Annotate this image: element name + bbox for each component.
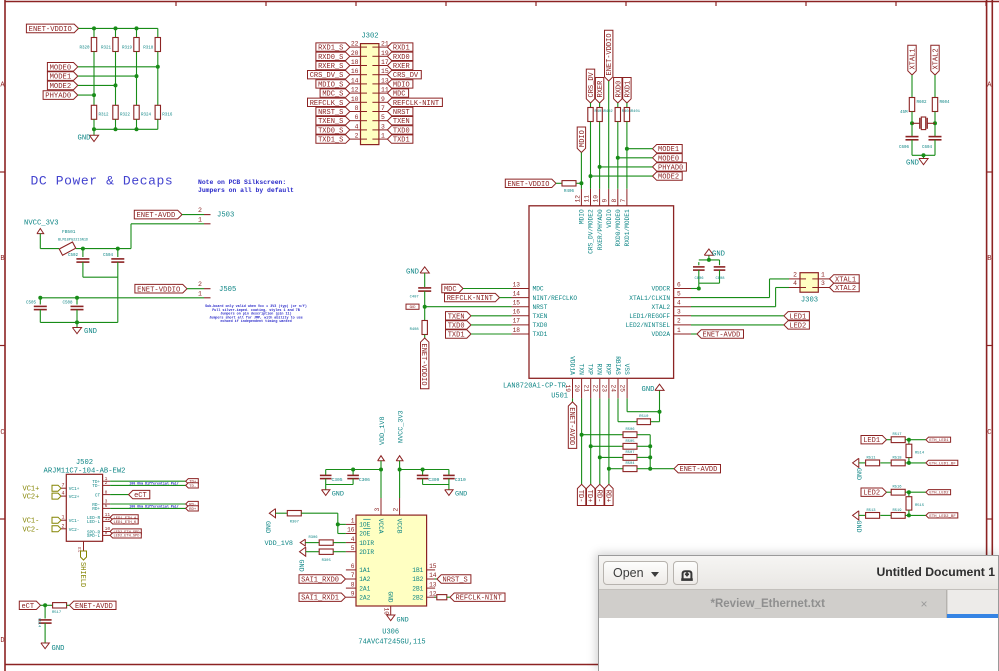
svg-text:DC Power & Decaps: DC Power & Decaps <box>31 174 174 189</box>
svg-text:1OE: 1OE <box>359 522 370 529</box>
svg-text:BLM18PG221SN1D: BLM18PG221SN1D <box>58 239 88 243</box>
svg-text:TD-: TD- <box>576 490 584 503</box>
svg-text:C606: C606 <box>899 146 910 150</box>
svg-text:REFCLK-NINT: REFCLK-NINT <box>456 595 502 603</box>
svg-text:R518: R518 <box>892 456 902 460</box>
svg-text:GND: GND <box>263 521 271 533</box>
svg-text:RXN: RXN <box>596 364 603 375</box>
svg-text:R513: R513 <box>866 509 876 513</box>
svg-text:1A2: 1A2 <box>359 576 370 583</box>
svg-text:U501: U501 <box>551 393 568 401</box>
svg-text:20: 20 <box>351 50 359 57</box>
svg-text:17: 17 <box>513 318 521 325</box>
svg-text:PHYAD0: PHYAD0 <box>45 93 71 101</box>
svg-text:3: 3 <box>374 508 381 512</box>
svg-text:C514: C514 <box>37 618 41 628</box>
svg-text:R604: R604 <box>940 101 951 105</box>
svg-text:TXD1_S: TXD1_S <box>318 137 343 145</box>
svg-text:B: B <box>0 255 4 263</box>
svg-text:XTAL1/CLKIN: XTAL1/CLKIN <box>629 295 670 302</box>
svg-text:GND: GND <box>52 645 65 653</box>
svg-text:VC2-: VC2- <box>23 526 40 534</box>
svg-text:CRS_DV: CRS_DV <box>393 72 419 80</box>
svg-text:2: 2 <box>355 133 359 140</box>
svg-text:RXD0: RXD0 <box>615 81 623 98</box>
svg-text:2: 2 <box>105 480 108 486</box>
svg-text:15: 15 <box>429 563 437 570</box>
svg-text:VDD2A: VDD2A <box>652 331 671 338</box>
svg-text:74AVC4T245GU,115: 74AVC4T245GU,115 <box>358 639 425 647</box>
svg-text:R505: R505 <box>625 440 635 444</box>
svg-text:13: 13 <box>429 581 437 588</box>
svg-text:CRS_DV: CRS_DV <box>588 71 596 97</box>
svg-text:MDC_S: MDC_S <box>322 91 343 99</box>
svg-text:VC2-: VC2- <box>69 528 80 533</box>
svg-text:LED2: LED2 <box>789 322 806 330</box>
svg-text:C407: C407 <box>410 296 419 300</box>
svg-text:R516: R516 <box>892 486 902 490</box>
svg-text:VCCA: VCCA <box>377 519 384 534</box>
svg-text:TXD0: TXD0 <box>393 127 410 135</box>
svg-text:8: 8 <box>351 581 355 588</box>
svg-text:R504: R504 <box>625 462 635 466</box>
svg-text:NRST: NRST <box>393 109 410 117</box>
svg-text:RBIAS: RBIAS <box>614 356 621 375</box>
svg-text:12: 12 <box>574 195 581 203</box>
svg-text:J503: J503 <box>217 212 234 220</box>
svg-text:MDC: MDC <box>533 286 544 293</box>
svg-text:R507: R507 <box>625 451 634 455</box>
svg-text:TXN: TXN <box>577 364 584 375</box>
svg-text:ETH_LED2: ETH_LED2 <box>929 492 949 496</box>
svg-text:Note on PCB Silkscreen:: Note on PCB Silkscreen: <box>198 179 286 186</box>
svg-text:ENET-AVDD: ENET-AVDD <box>136 212 175 220</box>
svg-text:VC2+: VC2+ <box>23 494 40 502</box>
svg-text:24: 24 <box>610 385 617 393</box>
svg-text:GND: GND <box>642 386 655 394</box>
svg-text:C: C <box>987 429 991 437</box>
svg-text:10: 10 <box>593 195 600 203</box>
svg-text:22: 22 <box>591 385 598 393</box>
svg-text:U306: U306 <box>382 629 399 637</box>
svg-text:R517: R517 <box>892 433 901 437</box>
svg-text:LED2/NINTSEL: LED2/NINTSEL <box>626 322 671 329</box>
svg-text:VCCB: VCCB <box>395 519 402 534</box>
svg-text:RXP: RXP <box>605 364 612 375</box>
svg-text:MODE2: MODE2 <box>658 174 679 182</box>
svg-text:CRS_DV_S: CRS_DV_S <box>310 72 344 80</box>
svg-text:MODE0: MODE0 <box>50 64 72 72</box>
svg-text:C808: C808 <box>715 277 725 281</box>
svg-text:10: 10 <box>351 96 359 103</box>
svg-text:ETH_LED2_BF: ETH_LED2_BF <box>929 515 956 519</box>
svg-text:14: 14 <box>429 572 437 579</box>
svg-text:18: 18 <box>513 327 521 334</box>
svg-text:2A2: 2A2 <box>359 594 370 601</box>
svg-text:C505: C505 <box>26 302 37 306</box>
svg-text:TD-: TD- <box>189 485 196 489</box>
svg-text:22: 22 <box>351 41 359 48</box>
svg-text:2DIR: 2DIR <box>359 549 374 556</box>
svg-text:LED-L: LED-L <box>87 520 101 525</box>
svg-text:R510: R510 <box>639 415 649 419</box>
svg-text:5: 5 <box>677 290 681 297</box>
svg-text:ENET-VDDIO: ENET-VDDIO <box>507 181 549 189</box>
svg-text:16: 16 <box>513 309 521 316</box>
svg-text:25: 25 <box>619 385 626 393</box>
svg-text:9: 9 <box>351 590 355 597</box>
svg-text:SAI1_RXD1: SAI1_RXD1 <box>301 595 339 603</box>
svg-text:RXD0: RXD0 <box>393 54 410 62</box>
svg-text:SHIELD: SHIELD <box>78 562 86 587</box>
svg-text:8: 8 <box>611 199 618 203</box>
svg-text:ETH_LED1: ETH_LED1 <box>929 439 949 443</box>
svg-text:6: 6 <box>677 281 681 288</box>
svg-text:R306: R306 <box>308 536 318 540</box>
svg-text:ENET-AVDD: ENET-AVDD <box>567 407 575 445</box>
svg-text:D: D <box>0 637 4 645</box>
svg-text:18: 18 <box>351 59 359 66</box>
svg-text:VDD_1V8: VDD_1V8 <box>264 540 293 548</box>
svg-text:VC2+: VC2+ <box>69 495 80 500</box>
svg-text:TD-: TD- <box>92 484 100 489</box>
svg-text:GND: GND <box>854 520 862 532</box>
svg-text:12: 12 <box>105 516 111 522</box>
svg-text:TXEN_S: TXEN_S <box>318 118 343 126</box>
svg-text:TXD0_S: TXD0_S <box>318 127 343 135</box>
svg-text:eCT: eCT <box>21 603 34 611</box>
svg-text:3: 3 <box>677 309 681 316</box>
svg-text:NVCC_3V3: NVCC_3V3 <box>24 220 59 228</box>
svg-text:J502: J502 <box>76 459 93 467</box>
svg-text:REFCLK-NINT: REFCLK-NINT <box>393 100 439 108</box>
svg-text:TXEN: TXEN <box>533 313 548 320</box>
svg-text:21: 21 <box>582 385 589 393</box>
svg-text:1: 1 <box>198 217 202 224</box>
svg-text:2: 2 <box>793 272 797 279</box>
svg-text:5: 5 <box>351 545 355 552</box>
svg-text:R506: R506 <box>625 428 635 432</box>
svg-text:6: 6 <box>351 563 355 570</box>
svg-text:RXER/PHYAD0: RXER/PHYAD0 <box>597 209 604 250</box>
svg-text:R305: R305 <box>322 559 332 563</box>
svg-text:Jumpers on all by default: Jumpers on all by default <box>198 187 294 194</box>
svg-text:TXEN: TXEN <box>448 313 465 321</box>
svg-text:10: 10 <box>382 608 389 616</box>
svg-text:LED2: LED2 <box>863 490 880 498</box>
svg-text:RD+: RD+ <box>189 508 197 512</box>
svg-text:XTAL1: XTAL1 <box>910 48 918 69</box>
svg-text:6: 6 <box>355 114 359 121</box>
svg-text:11: 11 <box>584 195 591 203</box>
svg-text:RXD0_S: RXD0_S <box>318 54 343 62</box>
svg-text:3: 3 <box>821 280 825 287</box>
svg-text:R517: R517 <box>52 611 61 615</box>
svg-text:RXER_S: RXER_S <box>318 63 343 71</box>
svg-text:14: 14 <box>513 290 521 297</box>
svg-text:VSS: VSS <box>623 364 630 375</box>
svg-text:9: 9 <box>602 199 609 203</box>
svg-text:4: 4 <box>351 536 355 543</box>
svg-text:TXD1: TXD1 <box>533 331 548 338</box>
svg-text:R519: R519 <box>892 509 902 513</box>
svg-text:REFCLK_S: REFCLK_S <box>310 100 344 108</box>
svg-text:C310: C310 <box>455 477 466 483</box>
svg-text:VC1-: VC1- <box>69 519 80 524</box>
svg-text:1: 1 <box>198 291 202 298</box>
svg-text:4: 4 <box>793 280 797 287</box>
svg-text:C305: C305 <box>332 477 343 483</box>
svg-text:2: 2 <box>61 523 64 529</box>
svg-text:MDC: MDC <box>444 286 457 294</box>
svg-text:FB501: FB501 <box>62 229 76 235</box>
svg-text:R319: R319 <box>122 47 133 51</box>
svg-text:eCT: eCT <box>134 492 147 500</box>
svg-text:SPD-L: SPD-L <box>87 534 101 539</box>
svg-text:MDC: MDC <box>393 91 406 99</box>
svg-text:NINT/REFCLKO: NINT/REFCLKO <box>533 295 578 302</box>
svg-text:ENET-VDDIO: ENET-VDDIO <box>419 344 427 386</box>
svg-text:XTAL2: XTAL2 <box>652 304 671 311</box>
svg-text:12: 12 <box>351 87 359 94</box>
svg-text:R324: R324 <box>141 114 152 118</box>
svg-text:12: 12 <box>429 590 437 597</box>
svg-text:R312: R312 <box>99 114 110 118</box>
svg-text:4: 4 <box>677 300 681 307</box>
svg-text:14: 14 <box>351 77 359 84</box>
svg-text:GND: GND <box>332 491 344 499</box>
svg-text:2: 2 <box>677 318 681 325</box>
svg-text:2: 2 <box>198 281 202 288</box>
svg-text:GND: GND <box>387 591 394 602</box>
svg-text:ENET-VDDIO: ENET-VDDIO <box>29 26 72 34</box>
svg-text:6: 6 <box>105 503 108 509</box>
svg-text:GND: GND <box>854 468 862 480</box>
svg-text:C502: C502 <box>68 254 79 258</box>
svg-text:J302: J302 <box>361 33 378 41</box>
svg-text:1B2: 1B2 <box>412 576 423 583</box>
svg-text:C504: C504 <box>103 254 114 258</box>
svg-text:MODE2: MODE2 <box>50 83 72 91</box>
svg-text:LED1: LED1 <box>863 437 880 445</box>
svg-text:2B1: 2B1 <box>412 585 423 592</box>
svg-text:echoed if independent timing w: echoed if independent timing wanted <box>220 319 291 324</box>
svg-text:13: 13 <box>513 281 521 288</box>
svg-text:SAI1_RXD0: SAI1_RXD0 <box>301 577 339 585</box>
svg-text:R322: R322 <box>120 114 131 118</box>
svg-text:VDDCR: VDDCR <box>652 286 671 293</box>
svg-text:20: 20 <box>573 385 580 393</box>
svg-text:GND: GND <box>410 305 416 309</box>
svg-text:TXD0: TXD0 <box>448 322 465 330</box>
svg-text:LED2_ETH_SPD: LED2_ETH_SPD <box>113 535 139 539</box>
svg-text:3: 3 <box>381 123 385 130</box>
svg-text:R511: R511 <box>866 456 876 460</box>
svg-text:GND: GND <box>84 328 97 336</box>
svg-text:GND: GND <box>78 135 91 143</box>
svg-text:RXD1: RXD1 <box>624 81 632 98</box>
svg-text:TXD1: TXD1 <box>393 137 410 145</box>
svg-text:B: B <box>987 255 991 263</box>
svg-text:RD+: RD+ <box>92 507 100 512</box>
svg-text:RXER: RXER <box>597 80 605 98</box>
svg-text:19: 19 <box>564 385 571 393</box>
svg-text:15: 15 <box>513 300 521 307</box>
svg-text:VC1+: VC1+ <box>69 487 80 492</box>
svg-text:4: 4 <box>61 491 64 497</box>
svg-text:100 Ohm Differential Pair: 100 Ohm Differential Pair <box>129 482 178 486</box>
svg-text:TXEN: TXEN <box>393 118 410 126</box>
svg-text:XTAL2: XTAL2 <box>835 285 856 293</box>
svg-text:2: 2 <box>198 207 202 214</box>
svg-text:1: 1 <box>381 133 385 140</box>
svg-text:GND: GND <box>397 617 409 625</box>
svg-text:VDDIO: VDDIO <box>606 209 613 228</box>
svg-text:RXD1_S: RXD1_S <box>318 45 343 53</box>
svg-text:1: 1 <box>61 515 64 521</box>
svg-text:TXD0: TXD0 <box>533 322 548 329</box>
svg-text:CT: CT <box>95 493 101 498</box>
svg-text:2: 2 <box>393 508 400 512</box>
svg-text:MODE0: MODE0 <box>658 155 679 163</box>
svg-text:TXD1: TXD1 <box>448 332 465 340</box>
svg-text:VDD1A: VDD1A <box>568 356 575 375</box>
svg-text:LED1/REGOFF: LED1/REGOFF <box>629 313 670 320</box>
svg-text:100 Ohm Differential Pair: 100 Ohm Differential Pair <box>129 505 178 509</box>
svg-text:R320: R320 <box>79 47 90 51</box>
svg-text:NRST: NRST <box>533 304 548 311</box>
svg-text:C: C <box>0 429 4 437</box>
svg-text:R515: R515 <box>915 504 925 508</box>
svg-text:MODE1: MODE1 <box>50 74 72 82</box>
svg-text:TD+: TD+ <box>585 490 593 503</box>
svg-text:GND: GND <box>406 269 419 277</box>
svg-text:VC1+: VC1+ <box>23 486 40 494</box>
svg-text:4: 4 <box>355 123 359 130</box>
svg-text:16: 16 <box>351 68 359 75</box>
svg-text:GND: GND <box>712 251 725 259</box>
svg-text:LED1_ETH_K: LED1_ETH_K <box>113 521 137 525</box>
svg-text:VC1-: VC1- <box>23 518 40 526</box>
svg-text:2B2: 2B2 <box>412 594 423 601</box>
svg-text:RXER: RXER <box>393 63 411 71</box>
svg-text:R408: R408 <box>410 328 420 332</box>
svg-text:MDIO: MDIO <box>579 130 587 147</box>
svg-text:RXD1/MODE1: RXD1/MODE1 <box>624 209 631 246</box>
svg-text:R307: R307 <box>290 521 299 525</box>
svg-text:2OE: 2OE <box>359 531 370 538</box>
svg-text:GND: GND <box>296 560 304 572</box>
svg-text:TXP: TXP <box>587 364 594 375</box>
svg-text:7: 7 <box>351 572 355 579</box>
svg-text:ENET-AVDD: ENET-AVDD <box>75 603 113 611</box>
svg-text:R316: R316 <box>162 114 173 118</box>
svg-text:PHYAD0: PHYAD0 <box>658 164 683 172</box>
svg-text:9: 9 <box>381 96 385 103</box>
svg-text:REFCLK-NINT: REFCLK-NINT <box>447 295 493 303</box>
svg-text:MDIO: MDIO <box>579 209 586 224</box>
svg-text:NVCC_3V3: NVCC_3V3 <box>398 410 406 443</box>
svg-text:XTAL2: XTAL2 <box>933 48 941 69</box>
svg-text:16: 16 <box>347 527 355 534</box>
svg-text:C306: C306 <box>359 477 370 483</box>
svg-text:LED1: LED1 <box>789 313 806 321</box>
svg-text:ENET-VDDIO: ENET-VDDIO <box>137 286 180 294</box>
svg-text:RD+: RD+ <box>603 490 611 503</box>
svg-text:RXD0/MODE0: RXD0/MODE0 <box>615 209 622 246</box>
svg-text:C508: C508 <box>62 302 73 306</box>
svg-text:7: 7 <box>381 105 385 112</box>
svg-text:CRS_DV/MODE2: CRS_DV/MODE2 <box>588 209 595 254</box>
svg-text:1A1: 1A1 <box>359 567 370 574</box>
svg-text:ENET-VDDIO: ENET-VDDIO <box>606 33 614 75</box>
svg-text:8: 8 <box>355 105 359 112</box>
svg-text:9: 9 <box>105 530 108 536</box>
svg-text:RXD1: RXD1 <box>393 45 410 53</box>
svg-text:LAN8720Ai-CP-TR: LAN8720Ai-CP-TR <box>503 383 567 391</box>
svg-text:23: 23 <box>601 385 608 393</box>
svg-text:1DIR: 1DIR <box>359 540 374 547</box>
svg-text:7: 7 <box>61 483 64 489</box>
svg-text:C604: C604 <box>922 146 933 150</box>
svg-text:7: 7 <box>620 199 627 203</box>
svg-text:J505: J505 <box>219 286 236 294</box>
svg-text:NRST_S: NRST_S <box>318 109 343 117</box>
svg-text:ENET-AVDD: ENET-AVDD <box>680 466 718 474</box>
svg-text:R406: R406 <box>564 190 575 194</box>
svg-text:MDIO: MDIO <box>393 81 410 89</box>
svg-text:RD-: RD- <box>594 490 602 503</box>
svg-text:GND: GND <box>906 160 919 168</box>
svg-text:NRST_S: NRST_S <box>443 577 468 585</box>
svg-text:ENET-AVDD: ENET-AVDD <box>703 332 741 340</box>
svg-text:R321: R321 <box>101 47 112 51</box>
svg-text:VDD_1V8: VDD_1V8 <box>379 416 387 445</box>
svg-text:C806: C806 <box>694 277 704 281</box>
svg-text:1: 1 <box>677 327 681 334</box>
svg-text:1B1: 1B1 <box>412 567 423 574</box>
svg-text:2A1: 2A1 <box>359 585 370 592</box>
svg-text:45M: 45M <box>900 111 908 115</box>
svg-text:GND: GND <box>455 491 467 499</box>
svg-text:MODE1: MODE1 <box>658 146 679 154</box>
svg-text:1: 1 <box>351 518 355 525</box>
svg-text:MDIO_S: MDIO_S <box>318 81 343 89</box>
svg-text:1: 1 <box>821 272 825 279</box>
svg-text:ETH_LED1_BF: ETH_LED1_BF <box>929 462 956 466</box>
svg-text:C309: C309 <box>428 477 439 483</box>
svg-text:5: 5 <box>381 114 385 121</box>
svg-text:R318: R318 <box>143 47 154 51</box>
svg-text:J303: J303 <box>801 297 818 305</box>
svg-text:R401: R401 <box>631 110 641 114</box>
svg-text:R602: R602 <box>917 101 928 105</box>
svg-text:R514: R514 <box>915 452 925 456</box>
svg-text:8: 8 <box>105 489 108 495</box>
